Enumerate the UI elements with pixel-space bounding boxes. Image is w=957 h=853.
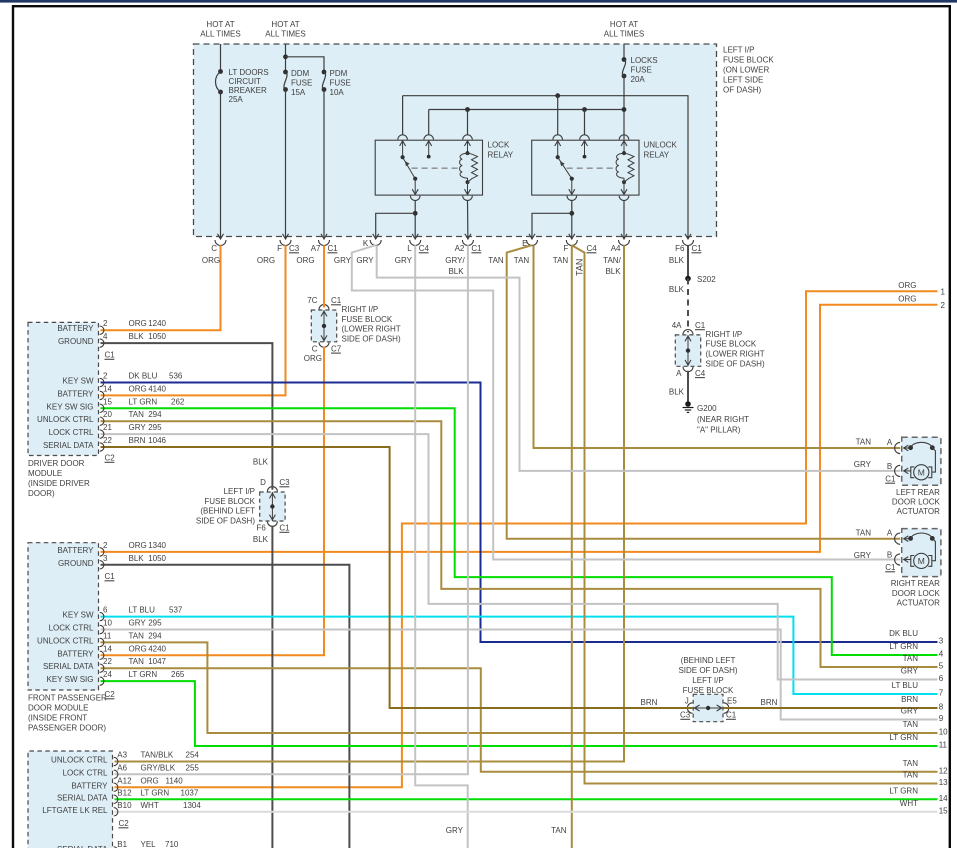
svg-text:(BEHIND LEFT: (BEHIND LEFT (681, 656, 736, 665)
fuse LOCKS 20A (622, 57, 627, 78)
svg-text:TAN: TAN (129, 657, 145, 666)
svg-text:RIGHT I/P: RIGHT I/P (706, 330, 743, 339)
svg-text:CIRCUIT: CIRCUIT (229, 77, 262, 86)
svg-text:B: B (887, 551, 892, 560)
wire TAN unlock feed: connector E diagonal branch to right rear actuator pin A (507, 245, 901, 539)
svg-text:ORG: ORG (898, 281, 916, 290)
svg-text:FUSE BLOCK: FUSE BLOCK (683, 686, 734, 695)
svg-text:A: A (887, 529, 893, 538)
label HOT AT ALL TIMES (265, 20, 305, 39)
svg-text:LT DOORS: LT DOORS (229, 68, 269, 77)
svg-text:ACTUATOR: ACTUATOR (897, 507, 940, 516)
label HOT AT ALL TIMES (604, 20, 644, 39)
wire LT GRN circuit 262: driver key sw sig to stub 4 (101, 408, 938, 655)
svg-text:GROUND: GROUND (58, 337, 94, 346)
relay top pin connector arcs (553, 135, 629, 140)
svg-text:(LOWER RIGHT: (LOWER RIGHT (706, 350, 765, 359)
svg-text:TAN: TAN (903, 771, 919, 780)
svg-text:LOCK: LOCK (488, 141, 510, 150)
left I/P fuse block (BRN serial data) connector labels J C3 E5 C1 (680, 697, 737, 720)
svg-text:C1: C1 (885, 474, 896, 483)
wire TAN/BLK circuit 254: connector A4 to liftgate unlock ctrl A3 (115, 245, 625, 761)
connector pin F at bottom of fuse block (563, 234, 577, 253)
svg-text:C2: C2 (105, 454, 116, 463)
svg-text:UNLOCK: UNLOCK (644, 141, 678, 150)
module liftgate module pin B10 LFTGATE LK REL WHT 1304 (42, 801, 201, 816)
fuse block left I/P fuse block (BRN serial data) (693, 694, 723, 721)
node stub 5 label TAN (903, 654, 944, 671)
wire TAN unlock feed: connector E to left rear actuator pin A (534, 245, 901, 448)
svg-text:BLK: BLK (669, 388, 685, 397)
svg-text:12: 12 (939, 766, 948, 775)
junction dot on bus A at unlock relay pin1 (555, 93, 560, 98)
wire: lock relay pin2 riser (428, 110, 430, 135)
svg-text:4240: 4240 (148, 644, 166, 653)
svg-text:254: 254 (186, 751, 200, 760)
module liftgate module pin B12 SERIAL DATA LT GRN 1037 (57, 788, 199, 803)
wire GRY circuit 295: passenger lock ctrl to stub 9 (101, 630, 938, 720)
left I/P fuse block (top) background (194, 44, 717, 237)
wire: S202 dashed BLK to right I/P fuse block (687, 279, 689, 333)
node stub 11 label LT GRN (889, 733, 947, 750)
svg-text:(BEHIND LEFT: (BEHIND LEFT (200, 507, 255, 516)
svg-text:TAN: TAN (856, 529, 872, 538)
wire: bus A (relay common feed to F6) (403, 96, 688, 239)
svg-text:FUSE BLOCK: FUSE BLOCK (204, 497, 255, 506)
wire color labels below fuse block connectors (202, 256, 685, 276)
svg-text:GRY/BLK: GRY/BLK (141, 763, 176, 772)
svg-text:1050: 1050 (148, 332, 166, 341)
svg-text:TAN: TAN (129, 410, 145, 419)
svg-text:BATTERY: BATTERY (57, 546, 94, 555)
svg-text:HOT AT: HOT AT (271, 20, 299, 29)
wire: lock relay coil return to connector A2 (467, 201, 469, 239)
svg-text:UNLOCK CTRL: UNLOCK CTRL (37, 415, 94, 424)
svg-text:RIGHT I/P: RIGHT I/P (342, 305, 379, 314)
svg-text:8: 8 (939, 703, 944, 712)
relay coil (winding + resistor) (460, 151, 478, 184)
svg-text:C: C (312, 344, 318, 353)
wire: unlock relay pin1 riser (557, 96, 559, 135)
svg-text:A3: A3 (117, 751, 127, 760)
node stub 1 label ORG (898, 281, 945, 297)
svg-text:ALL TIMES: ALL TIMES (604, 30, 644, 39)
svg-text:537: 537 (169, 606, 183, 615)
svg-text:13: 13 (939, 778, 948, 787)
svg-text:B10: B10 (117, 801, 132, 810)
svg-text:22: 22 (103, 657, 112, 666)
label left I/P fuse block (mid) (196, 487, 256, 525)
svg-text:1140: 1140 (166, 776, 184, 785)
svg-text:LT GRN: LT GRN (129, 670, 158, 679)
svg-text:BATTERY: BATTERY (57, 389, 94, 398)
node stub 4 label LT GRN (889, 642, 943, 659)
svg-text:LOCKS: LOCKS (631, 56, 658, 65)
svg-text:BATTERY: BATTERY (57, 649, 94, 658)
wire ORG circuit 1340: passenger battery pin 2 to stub 2 (101, 305, 938, 552)
module liftgate module box (28, 751, 113, 853)
wire: unlock relay pin2 riser (584, 110, 586, 135)
right rear door lock actuator pin A connector (887, 529, 900, 545)
svg-text:SERIAL DATA: SERIAL DATA (43, 441, 94, 450)
relay bottom pin connector arcs (410, 196, 472, 201)
svg-text:BRN: BRN (129, 436, 146, 445)
fuse PDM 10A (322, 70, 327, 92)
svg-text:2: 2 (103, 319, 108, 328)
svg-text:295: 295 (148, 423, 162, 432)
svg-text:FUSE BLOCK: FUSE BLOCK (342, 315, 393, 324)
svg-text:TAN: TAN (903, 759, 919, 768)
svg-text:22: 22 (103, 436, 112, 445)
fuse block right I/P fuse block (upper) (311, 310, 336, 342)
left I/P fuse block (mid) internal wire with arrows and splice dot (267, 487, 277, 527)
svg-text:1037: 1037 (181, 788, 199, 797)
svg-text:C2: C2 (119, 819, 130, 828)
svg-text:C1: C1 (105, 351, 116, 360)
wire BLK circuit 1050: left I/P fuse block down off page (271, 526, 273, 848)
connector pin A7 at bottom of fuse block (311, 234, 330, 253)
svg-text:4A: 4A (672, 321, 682, 330)
svg-text:C3: C3 (680, 711, 691, 720)
svg-text:GRY: GRY (129, 619, 147, 628)
svg-text:ORG: ORG (202, 256, 220, 265)
svg-text:OF DASH): OF DASH) (723, 86, 762, 95)
svg-text:TAN: TAN (903, 720, 919, 729)
svg-text:TAN: TAN (488, 256, 504, 265)
node stub 12 label TAN (903, 759, 949, 776)
wire: branch to connector E (532, 213, 572, 239)
svg-text:BRN: BRN (901, 695, 918, 704)
connector pin K at bottom of fuse block (363, 234, 381, 248)
svg-text:LEFT REAR: LEFT REAR (896, 488, 940, 497)
label left rear door lock actuator (892, 488, 941, 516)
svg-text:TAN: TAN (553, 256, 569, 265)
svg-text:KEY SW SIG: KEY SW SIG (47, 402, 94, 411)
junction dot bus B at locks fuse vertical (622, 107, 627, 112)
svg-text:3: 3 (939, 637, 944, 646)
module front passenger door module pin 11 UNLOCK CTRL TAN 294 (37, 631, 162, 646)
svg-text:C7: C7 (331, 344, 342, 353)
svg-text:BRN: BRN (761, 698, 778, 707)
right I/P fuse block (upper) internal wire with arrows and splice dot (319, 305, 329, 348)
svg-text:RIGHT REAR: RIGHT REAR (891, 579, 940, 588)
label driver door module (28, 459, 90, 498)
svg-text:BLK: BLK (253, 535, 269, 544)
left rear door lock actuator internal motor circuit (904, 442, 936, 480)
svg-text:GRY: GRY (901, 707, 919, 716)
svg-text:C1: C1 (105, 572, 116, 581)
right I/P fuse block (lower) bottom connector labels A C4 (676, 369, 706, 378)
svg-text:LEFT SIDE: LEFT SIDE (723, 76, 763, 85)
svg-text:(ON LOWER: (ON LOWER (723, 66, 769, 75)
svg-text:BLK: BLK (669, 285, 685, 294)
node stub 3 label DK BLU (889, 629, 944, 646)
wire: circuit breaker feed (hot at all times, x=220.5) (220, 44, 222, 72)
svg-text:A7: A7 (311, 244, 321, 253)
svg-text:2: 2 (941, 301, 946, 310)
svg-text:SIDE OF DASH): SIDE OF DASH) (196, 516, 255, 525)
relay coil (winding + resistor) (616, 151, 634, 184)
right I/P fuse block (upper) top connector labels 7C C1 (307, 296, 342, 305)
svg-text:A4: A4 (611, 244, 621, 253)
svg-text:ALL TIMES: ALL TIMES (265, 30, 305, 39)
svg-text:PDM: PDM (330, 69, 348, 78)
svg-text:DK BLU: DK BLU (129, 372, 158, 381)
svg-text:C1: C1 (726, 711, 737, 720)
module front passenger door module pin 2 BATTERY ORG 1340 (57, 541, 166, 556)
svg-text:KEY SW: KEY SW (63, 611, 94, 620)
wire: lock relay pin1 riser (402, 96, 404, 135)
module driver door module pin 2 BATTERY ORG 1240 (57, 319, 166, 334)
module front passenger door module pin 6 KEY SW LT BLU 537 (63, 606, 183, 621)
svg-text:ORG: ORG (257, 256, 275, 265)
svg-text:1304: 1304 (183, 801, 201, 810)
svg-text:ORG: ORG (141, 776, 159, 785)
wire DK BLU circuit 536: driver key sw to stub 3 (101, 383, 938, 643)
svg-text:BLK: BLK (669, 256, 685, 265)
svg-text:6: 6 (103, 606, 108, 615)
wire: F6 BLK down to S202 (687, 245, 689, 278)
svg-text:DRIVER DOOR: DRIVER DOOR (28, 459, 85, 468)
connector pin F at bottom of fuse block (277, 234, 291, 253)
svg-text:TAN: TAN (856, 438, 872, 447)
svg-text:20: 20 (103, 410, 112, 419)
svg-text:294: 294 (148, 410, 162, 419)
left I/P fuse block (BRN serial data) internal wire with arrows and splice dot (687, 703, 728, 713)
svg-text:C1: C1 (331, 296, 342, 305)
svg-text:"A" PILLAR): "A" PILLAR) (697, 426, 741, 435)
label liftgate module (0, 0, 1, 1)
svg-text:255: 255 (186, 763, 200, 772)
svg-text:DOOR LOCK: DOOR LOCK (892, 498, 941, 507)
svg-text:BLK: BLK (253, 458, 269, 467)
svg-text:ORG: ORG (898, 294, 916, 303)
svg-text:BREAKER: BREAKER (229, 86, 267, 95)
module liftgate module pin A3 UNLOCK CTRL TAN/BLK 254 (51, 751, 199, 766)
svg-text:J: J (685, 697, 689, 706)
module front passenger door module pin 3 GROUND BLK 1050 (58, 554, 167, 569)
svg-text:TAN: TAN (514, 256, 530, 265)
wire TAN circuit 294: passenger unlock ctrl to stub 10 (101, 642, 938, 733)
svg-text:RELAY: RELAY (644, 151, 670, 160)
svg-text:M: M (918, 556, 925, 566)
relay coil output lead (467, 182, 469, 194)
wire: LOCKS fuse feed (x=624) (623, 44, 625, 60)
svg-text:15A: 15A (291, 88, 306, 97)
svg-text:1240: 1240 (148, 319, 166, 328)
label UNLOCK RELAY (644, 141, 678, 160)
wire: PDM fuse output to connector A7 (323, 90, 325, 239)
svg-text:ALL TIMES: ALL TIMES (200, 30, 240, 39)
left I/P fuse block (top) dashed border (194, 44, 717, 237)
label right rear door lock actuator (891, 579, 941, 607)
wire ORG circuit 1140: liftgate module battery A12 to stub 1 (115, 291, 938, 787)
wire TAN branch: connector F diagonal to stub 13 (572, 245, 938, 783)
svg-text:BLK: BLK (129, 554, 145, 563)
svg-text:GRY: GRY (901, 667, 919, 676)
wire GRY lock feed: connector K diagonal branch to right rear actuator pin B (352, 245, 900, 559)
svg-text:TAN: TAN (129, 631, 145, 640)
svg-text:294: 294 (148, 631, 162, 640)
svg-text:LEFT I/P: LEFT I/P (224, 487, 255, 496)
wire: LOCKS fuse output down to relay coil feed (623, 76, 625, 135)
svg-text:PASSENGER DOOR): PASSENGER DOOR) (28, 724, 106, 733)
connector pin C at bottom of fuse block (211, 234, 226, 253)
svg-text:LEFT I/P: LEFT I/P (692, 676, 723, 685)
svg-text:DDM: DDM (291, 69, 310, 78)
wire ORG circuit 4140: connector F to driver battery pin 14 (101, 245, 286, 395)
module driver door module pin 15 KEY SW SIG LT GRN 262 (47, 397, 185, 412)
actuator right rear door lock actuator box (902, 529, 941, 577)
module driver door module pin 22 SERIAL DATA BRN 1046 (43, 436, 167, 451)
svg-text:G200: G200 (697, 404, 717, 413)
svg-text:BLK: BLK (129, 332, 145, 341)
wire GRY lock feed: connector K to left rear actuator pin B (377, 245, 901, 471)
svg-text:D: D (260, 478, 266, 487)
svg-text:A: A (887, 438, 893, 447)
svg-text:KEY SW SIG: KEY SW SIG (47, 675, 94, 684)
left rear door lock actuator pin A connector (887, 438, 900, 454)
relay top pin connector arcs (398, 135, 473, 140)
junction dot unlock output split (569, 211, 574, 216)
module driver door module box (28, 322, 99, 455)
svg-text:C3: C3 (279, 478, 290, 487)
svg-text:KEY SW: KEY SW (63, 377, 94, 386)
wire TAN circuit: connector F straight down off page (571, 245, 573, 848)
svg-text:7: 7 (939, 689, 944, 698)
svg-text:1046: 1046 (148, 436, 166, 445)
svg-text:LT BLU: LT BLU (892, 681, 919, 690)
module liftgate module pin B1 SERIAL DATA YEL 710 (57, 840, 179, 853)
relay box UNLOCK RELAY (532, 140, 639, 195)
right rear door lock actuator internal motor circuit (904, 533, 936, 569)
svg-text:LFTGATE LK REL: LFTGATE LK REL (42, 806, 108, 815)
svg-text:C1: C1 (471, 244, 482, 253)
svg-text:B12: B12 (117, 788, 132, 797)
svg-text:DK BLU: DK BLU (889, 629, 918, 638)
svg-text:A12: A12 (117, 776, 132, 785)
svg-text:SIDE OF DASH): SIDE OF DASH) (706, 359, 765, 368)
svg-text:ORG: ORG (296, 256, 314, 265)
module liftgate module pin A12 BATTERY ORG 1140 (71, 776, 183, 791)
svg-text:SIDE OF DASH): SIDE OF DASH) (678, 666, 737, 675)
svg-text:GRY/: GRY/ (445, 256, 465, 265)
svg-text:ORG: ORG (129, 644, 147, 653)
wire: right I/P fuse block to G200 (687, 371, 689, 402)
svg-text:BLK: BLK (448, 267, 464, 276)
wire: lock relay blade output to connector L (414, 201, 416, 239)
relay coil output lead (623, 182, 625, 194)
svg-text:4: 4 (939, 650, 944, 659)
svg-text:DOOR MODULE: DOOR MODULE (28, 704, 88, 713)
wire BLK circuit 1050: passenger ground down off page (101, 565, 350, 848)
svg-text:BRN: BRN (641, 698, 658, 707)
svg-text:GROUND: GROUND (58, 559, 94, 568)
relay dashed actuation link (412, 167, 460, 169)
relay box LOCK RELAY (375, 140, 482, 195)
svg-text:(INSIDE FRONT: (INSIDE FRONT (28, 714, 87, 723)
node stub 13 label TAN (903, 771, 949, 788)
module front passenger door module pin 22 SERIAL DATA TAN 1047 (43, 657, 167, 672)
svg-text:265: 265 (171, 670, 185, 679)
relay blade output lead (414, 179, 416, 195)
svg-text:15: 15 (103, 397, 112, 406)
node stub 8 label BRN (901, 695, 944, 712)
relay switch blade (401, 155, 418, 181)
svg-text:LT GRN: LT GRN (889, 786, 918, 795)
svg-text:LEFT I/P: LEFT I/P (723, 46, 754, 55)
svg-text:F: F (563, 244, 568, 253)
svg-text:WHT: WHT (900, 799, 918, 808)
wire ORG circuit 1240: connector C to driver battery pin 2 (101, 245, 221, 330)
junction dot bus B at lock relay coil (465, 107, 470, 112)
right I/P fuse block (lower) internal wire with arrows and splice dot (683, 330, 693, 372)
svg-text:GRY: GRY (129, 423, 147, 432)
ground G200 (683, 401, 694, 412)
wire GRY/BLK circuit 255: connector A2 to liftgate lock ctrl A6 (115, 245, 468, 774)
right rear door lock actuator pin B connector (887, 551, 900, 566)
relay dashed actuation link (567, 167, 616, 169)
junction dot lock output split (413, 211, 418, 216)
svg-text:B1: B1 (117, 840, 127, 848)
svg-text:A: A (676, 369, 682, 378)
wire BRN circuit 1046: driver serial data to fuse block J (101, 447, 693, 708)
svg-text:FUSE BLOCK: FUSE BLOCK (723, 56, 774, 65)
svg-text:MODULE: MODULE (28, 469, 62, 478)
svg-text:1: 1 (941, 287, 946, 296)
module driver door module pin 4 GROUND BLK 1050 (58, 332, 167, 347)
svg-text:C1: C1 (279, 524, 290, 533)
wire WHT circuit 1304: liftgate LFTGATE LK REL B10 to stub 15 (115, 811, 938, 813)
svg-text:LT BLU: LT BLU (129, 606, 156, 615)
splice S202 (685, 276, 691, 282)
svg-text:1047: 1047 (148, 657, 166, 666)
svg-text:295: 295 (148, 619, 162, 628)
svg-text:BATTERY: BATTERY (57, 324, 94, 333)
svg-text:C1: C1 (695, 321, 706, 330)
relay bottom pin connector arcs (567, 196, 629, 201)
label G200 (NEAR RIGHT A PILLAR) (697, 404, 749, 435)
svg-text:SIDE OF DASH): SIDE OF DASH) (342, 334, 401, 343)
wire GRY circuit 295: driver lock ctrl to stub 6 (101, 434, 938, 679)
svg-text:GRY: GRY (854, 551, 872, 560)
svg-text:GRY: GRY (446, 826, 464, 835)
svg-text:K: K (363, 239, 369, 248)
svg-text:2: 2 (103, 541, 108, 550)
svg-text:LT GRN: LT GRN (889, 642, 918, 651)
module driver door module pin 2 KEY SW DK BLU 536 (63, 372, 183, 387)
svg-text:E5: E5 (727, 697, 737, 706)
node stub 15 label WHT (900, 799, 948, 816)
relay top pin leads with up arrows (555, 140, 627, 158)
svg-text:C1: C1 (692, 244, 703, 253)
svg-text:(LOWER RIGHT: (LOWER RIGHT (342, 325, 401, 334)
svg-text:UNLOCK CTRL: UNLOCK CTRL (51, 756, 108, 765)
page top navy bar (0, 0, 957, 3)
wire: unlock relay coil return to connector A4 (623, 135, 625, 140)
wire TAN circuit 294: driver unlock ctrl to stub 5 (101, 421, 938, 667)
svg-text:9: 9 (939, 714, 944, 723)
svg-text:SERIAL DATA: SERIAL DATA (57, 793, 108, 802)
label PDM FUSE 10A (330, 69, 351, 97)
wire GRY circuit: connector L down and off page (415, 245, 468, 848)
svg-text:FUSE: FUSE (291, 79, 312, 88)
svg-text:21: 21 (103, 423, 112, 432)
svg-text:BATTERY: BATTERY (71, 781, 108, 790)
svg-text:BLK: BLK (605, 267, 621, 276)
svg-text:F6: F6 (675, 244, 685, 253)
svg-text:GRY: GRY (854, 460, 872, 469)
